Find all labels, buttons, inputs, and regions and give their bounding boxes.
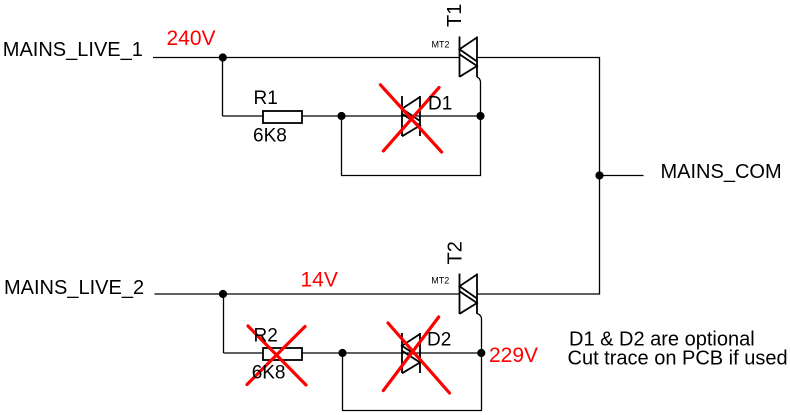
svg-text:6K8: 6K8 bbox=[253, 126, 287, 147]
svg-text:MT2: MT2 bbox=[432, 39, 450, 49]
svg-text:T2: T2 bbox=[445, 241, 467, 264]
svg-text:229V: 229V bbox=[489, 344, 538, 367]
svg-text:MAINS_LIVE_2: MAINS_LIVE_2 bbox=[4, 277, 144, 299]
svg-text:T1: T1 bbox=[444, 4, 466, 27]
svg-text:Cut trace on PCB if used: Cut trace on PCB if used bbox=[568, 348, 788, 370]
svg-text:D1: D1 bbox=[428, 94, 452, 115]
svg-text:240V: 240V bbox=[167, 27, 216, 50]
svg-text:R2: R2 bbox=[254, 326, 278, 347]
svg-text:MT2: MT2 bbox=[431, 276, 449, 286]
svg-text:MAINS_COM: MAINS_COM bbox=[661, 161, 782, 183]
svg-text:D2: D2 bbox=[427, 330, 451, 351]
svg-text:6K8: 6K8 bbox=[252, 363, 286, 384]
svg-text:14V: 14V bbox=[301, 269, 338, 292]
svg-text:R1: R1 bbox=[254, 88, 278, 109]
svg-text:MAINS_LIVE_1: MAINS_LIVE_1 bbox=[3, 39, 143, 61]
